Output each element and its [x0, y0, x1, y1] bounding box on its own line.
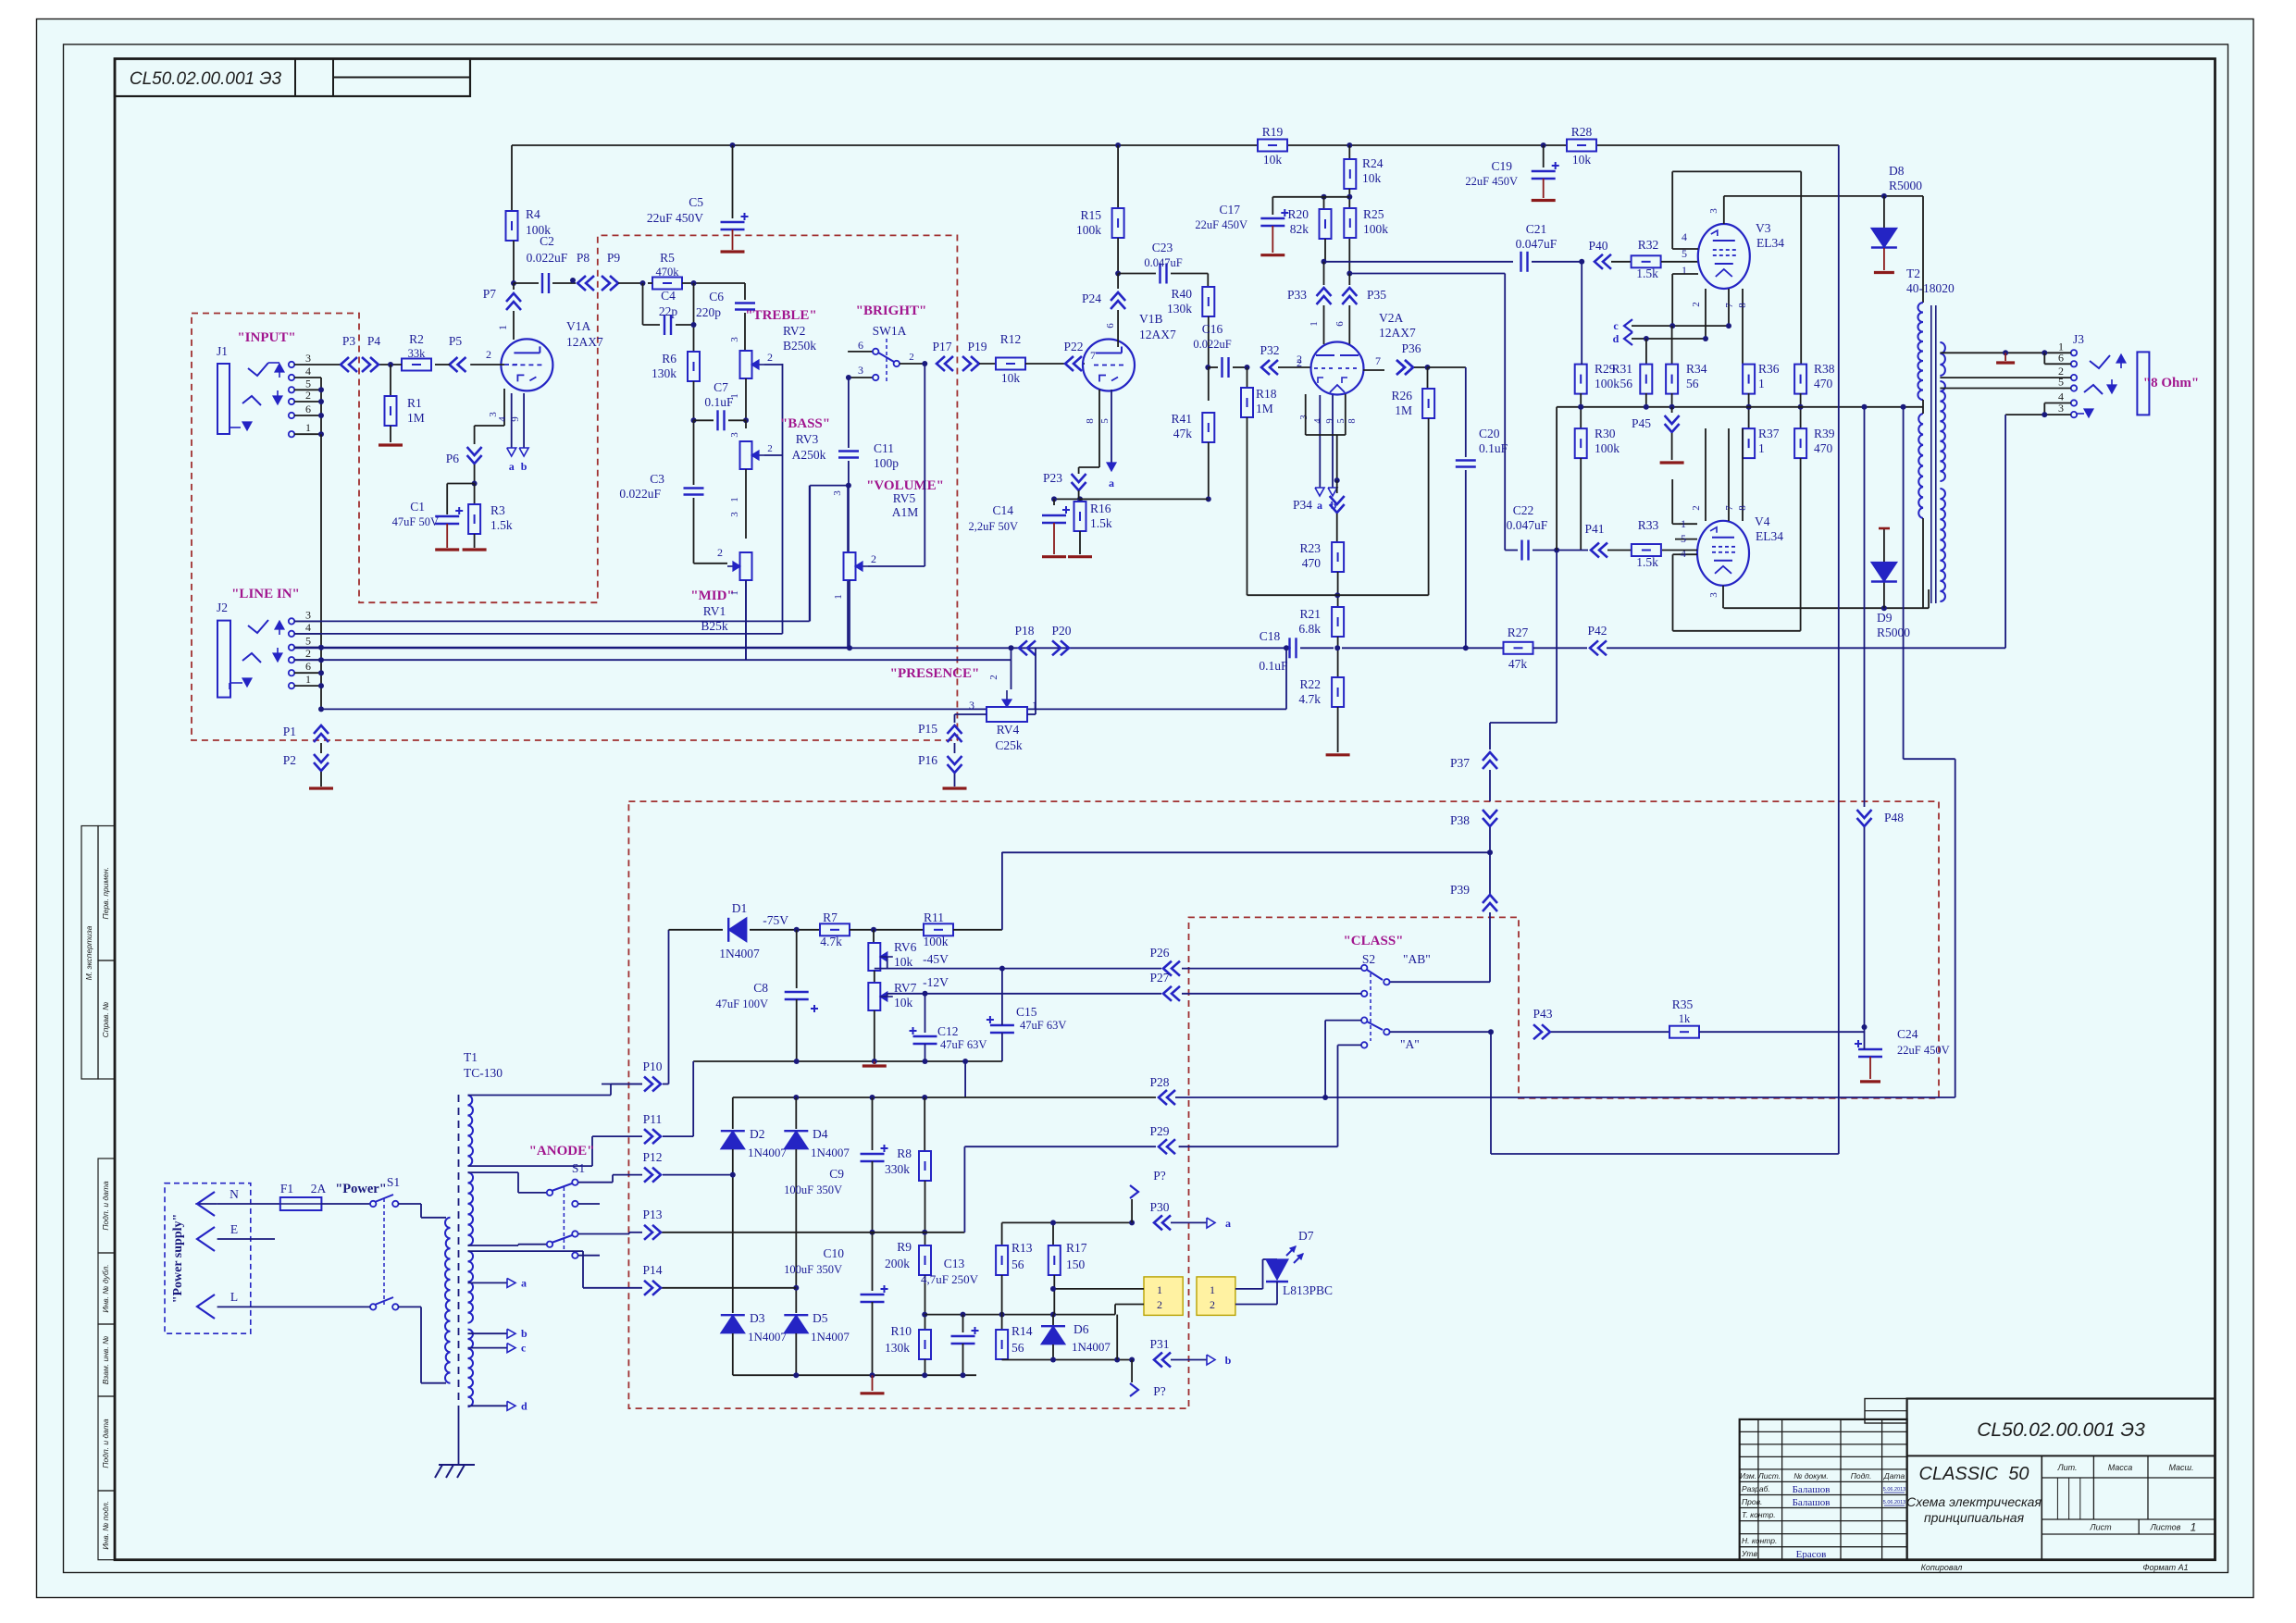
- svg-text:1: 1: [2191, 1521, 2197, 1534]
- svg-text:P22: P22: [1063, 340, 1083, 353]
- svg-text:"BRIGHT": "BRIGHT": [856, 304, 927, 318]
- svg-text:R8: R8: [897, 1146, 912, 1160]
- svg-text:R40: R40: [1171, 287, 1192, 301]
- svg-text:1k: 1k: [1679, 1012, 1691, 1025]
- svg-text:R32: R32: [1638, 238, 1659, 252]
- svg-text:1M: 1M: [1256, 402, 1273, 415]
- svg-text:0.1uF: 0.1uF: [1479, 441, 1508, 455]
- svg-text:T2: T2: [1906, 266, 1920, 280]
- svg-text:Лит.: Лит.: [2056, 1463, 2077, 1472]
- svg-text:2: 2: [305, 647, 311, 660]
- svg-text:D2: D2: [750, 1127, 765, 1141]
- svg-text:Перв. примен.: Перв. примен.: [101, 867, 110, 920]
- svg-text:C13: C13: [944, 1257, 965, 1270]
- svg-text:R14: R14: [1011, 1324, 1033, 1338]
- svg-text:c: c: [1613, 319, 1619, 332]
- svg-text:d: d: [1613, 332, 1620, 345]
- svg-text:R6: R6: [662, 352, 676, 365]
- svg-text:3: 3: [305, 352, 311, 365]
- svg-text:B25k: B25k: [701, 619, 728, 633]
- svg-text:R39: R39: [1814, 427, 1835, 440]
- svg-text:3: 3: [729, 432, 740, 438]
- svg-text:P33: P33: [1287, 288, 1307, 302]
- svg-text:100k: 100k: [924, 935, 949, 948]
- svg-text:"INPUT": "INPUT": [237, 330, 295, 345]
- svg-text:P7: P7: [483, 287, 497, 301]
- svg-text:150: 150: [1066, 1258, 1086, 1271]
- svg-text:R13: R13: [1011, 1241, 1033, 1255]
- svg-text:Изм.: Изм.: [1740, 1471, 1756, 1481]
- svg-text:R23: R23: [1299, 541, 1321, 555]
- svg-text:5.06.2013: 5.06.2013: [1883, 1487, 1905, 1493]
- svg-text:Инв. № дубл.: Инв. № дубл.: [101, 1264, 110, 1312]
- svg-text:47k: 47k: [1173, 427, 1193, 440]
- svg-text:220p: 220p: [696, 305, 721, 319]
- svg-text:a: a: [1109, 477, 1114, 489]
- svg-text:3: 3: [729, 337, 740, 342]
- svg-text:М. экспертиза: М. экспертиза: [84, 925, 93, 980]
- svg-text:P32: P32: [1260, 343, 1279, 357]
- svg-text:C8: C8: [753, 981, 768, 995]
- svg-text:4: 4: [305, 365, 311, 378]
- svg-text:P35: P35: [1367, 288, 1386, 302]
- svg-text:CL50.02.00.001 Э3: CL50.02.00.001 Э3: [130, 69, 282, 89]
- svg-text:R5000: R5000: [1889, 179, 1922, 192]
- svg-text:6: 6: [1105, 323, 1116, 328]
- svg-text:C24: C24: [1897, 1027, 1918, 1041]
- svg-text:8: 8: [1737, 505, 1748, 511]
- svg-text:a: a: [1225, 1217, 1231, 1230]
- svg-text:R2: R2: [409, 332, 424, 346]
- svg-text:22uF 450V: 22uF 450V: [1465, 175, 1518, 188]
- svg-text:1N4007: 1N4007: [811, 1330, 850, 1344]
- svg-text:V1B: V1B: [1139, 312, 1163, 326]
- svg-text:Лист.: Лист.: [1757, 1471, 1781, 1481]
- svg-text:100k: 100k: [1363, 222, 1388, 236]
- svg-text:P20: P20: [1051, 624, 1071, 638]
- svg-text:9: 9: [510, 416, 521, 422]
- svg-text:J3: J3: [2073, 332, 2084, 346]
- svg-text:D5: D5: [813, 1311, 828, 1325]
- svg-text:"Power": "Power": [335, 1182, 387, 1196]
- svg-text:C23: C23: [1152, 241, 1173, 254]
- svg-text:100k: 100k: [1595, 441, 1620, 455]
- svg-text:47uF 63V: 47uF 63V: [1020, 1019, 1066, 1032]
- svg-text:Инв. № подл.: Инв. № подл.: [101, 1501, 110, 1550]
- svg-text:1: 1: [1032, 699, 1037, 712]
- svg-text:c: c: [521, 1342, 527, 1355]
- svg-text:100uF 350V: 100uF 350V: [784, 1183, 842, 1196]
- svg-text:"AB": "AB": [1403, 952, 1431, 966]
- svg-text:1: 1: [305, 421, 311, 434]
- svg-text:P48: P48: [1884, 811, 1904, 824]
- svg-text:R30: R30: [1595, 427, 1616, 440]
- svg-text:C1: C1: [410, 500, 425, 514]
- svg-text:"A": "A": [1400, 1037, 1420, 1051]
- svg-text:10k: 10k: [1263, 153, 1283, 167]
- svg-text:C20: C20: [1479, 427, 1500, 440]
- svg-text:1: 1: [833, 594, 844, 600]
- svg-text:T1: T1: [464, 1050, 478, 1064]
- svg-text:b: b: [521, 460, 527, 473]
- svg-text:6: 6: [305, 660, 311, 673]
- svg-text:принципиальная: принципиальная: [1924, 1510, 2025, 1525]
- svg-text:P?: P?: [1153, 1384, 1166, 1398]
- svg-text:R16: R16: [1090, 502, 1111, 515]
- svg-text:0.047uF: 0.047uF: [1516, 237, 1558, 251]
- svg-text:1: 1: [729, 497, 740, 502]
- svg-text:4: 4: [1313, 418, 1323, 424]
- svg-text:3: 3: [488, 412, 499, 417]
- svg-text:1: 1: [1681, 517, 1686, 530]
- svg-text:4.7k: 4.7k: [1298, 692, 1321, 706]
- svg-text:C15: C15: [1016, 1005, 1037, 1019]
- svg-text:2: 2: [717, 546, 723, 559]
- svg-text:P29: P29: [1149, 1124, 1169, 1138]
- svg-text:12AX7: 12AX7: [1379, 326, 1416, 340]
- svg-text:P24: P24: [1082, 291, 1101, 305]
- svg-text:C3: C3: [650, 472, 664, 486]
- svg-text:P42: P42: [1587, 624, 1607, 638]
- svg-text:1: 1: [1758, 441, 1765, 455]
- svg-text:P18: P18: [1014, 624, 1034, 638]
- svg-text:P15: P15: [918, 722, 937, 736]
- svg-text:1: 1: [496, 325, 509, 330]
- svg-text:CLASSIC 50: CLASSIC 50: [1919, 1464, 2029, 1484]
- svg-text:2: 2: [767, 351, 773, 364]
- svg-text:0.1uF: 0.1uF: [704, 395, 734, 409]
- svg-text:C11: C11: [874, 441, 894, 455]
- svg-text:47k: 47k: [1508, 657, 1528, 671]
- svg-text:R25: R25: [1363, 207, 1384, 221]
- svg-text:56: 56: [1011, 1341, 1024, 1355]
- svg-text:D4: D4: [813, 1127, 828, 1141]
- svg-text:P8: P8: [577, 251, 590, 265]
- svg-text:C16: C16: [1202, 322, 1223, 336]
- svg-text:a: a: [521, 1276, 527, 1289]
- svg-text:10k: 10k: [1001, 371, 1021, 385]
- svg-text:V4: V4: [1755, 514, 1770, 528]
- svg-text:1N4007: 1N4007: [719, 947, 760, 960]
- svg-text:C6: C6: [709, 290, 724, 304]
- svg-text:R12: R12: [1000, 332, 1022, 346]
- svg-text:8: 8: [1347, 418, 1358, 423]
- svg-text:1: 1: [1210, 1283, 1215, 1296]
- svg-text:Дата: Дата: [1883, 1471, 1905, 1481]
- svg-text:R31: R31: [1611, 362, 1632, 376]
- svg-text:R3: R3: [490, 503, 505, 517]
- svg-text:RV5: RV5: [893, 491, 916, 505]
- svg-text:470k: 470k: [656, 266, 680, 279]
- svg-text:4,7uF 250V: 4,7uF 250V: [921, 1272, 979, 1286]
- svg-text:R38: R38: [1814, 362, 1835, 376]
- svg-text:1: 1: [305, 673, 311, 686]
- svg-text:C5: C5: [689, 195, 703, 209]
- svg-text:P11: P11: [643, 1112, 663, 1126]
- svg-text:R37: R37: [1758, 427, 1780, 440]
- svg-text:P14: P14: [642, 1263, 662, 1277]
- svg-text:2: 2: [1210, 1298, 1215, 1311]
- svg-text:P23: P23: [1043, 471, 1062, 485]
- svg-text:56: 56: [1686, 377, 1699, 390]
- svg-text:0.1uF: 0.1uF: [1259, 659, 1288, 673]
- svg-text:P31: P31: [1149, 1337, 1169, 1351]
- svg-text:Н. контр.: Н. контр.: [1742, 1536, 1777, 1545]
- svg-text:40-18020: 40-18020: [1906, 281, 1955, 295]
- svg-text:2: 2: [1157, 1298, 1162, 1311]
- svg-text:V2A: V2A: [1379, 311, 1403, 325]
- svg-text:"PRESENCE": "PRESENCE": [890, 666, 980, 681]
- svg-text:Подп. и дата: Подп. и дата: [101, 1181, 110, 1230]
- svg-text:P5: P5: [449, 334, 463, 348]
- svg-text:P37: P37: [1450, 756, 1470, 770]
- svg-text:Подп. и дата: Подп. и дата: [101, 1419, 110, 1468]
- svg-text:Балашов: Балашов: [1793, 1484, 1831, 1495]
- svg-text:P17: P17: [932, 340, 951, 353]
- svg-text:A1M: A1M: [892, 505, 919, 519]
- svg-text:RV7: RV7: [894, 981, 917, 995]
- svg-text:100k: 100k: [1595, 377, 1620, 390]
- svg-text:4: 4: [1682, 230, 1687, 243]
- svg-text:"CLASS": "CLASS": [1343, 934, 1403, 948]
- svg-text:P13: P13: [642, 1208, 662, 1221]
- svg-text:12AX7: 12AX7: [566, 335, 603, 349]
- svg-text:Лист: Лист: [2089, 1523, 2112, 1532]
- svg-text:330k: 330k: [885, 1162, 910, 1176]
- svg-text:56: 56: [1011, 1258, 1024, 1271]
- svg-text:P1: P1: [283, 725, 296, 738]
- svg-text:R5: R5: [660, 251, 675, 265]
- svg-text:0.022uF: 0.022uF: [1193, 338, 1231, 351]
- svg-text:A250k: A250k: [792, 448, 826, 462]
- svg-text:R27: R27: [1508, 626, 1529, 639]
- svg-text:2: 2: [909, 352, 914, 363]
- svg-text:P9: P9: [607, 251, 621, 265]
- svg-text:C14: C14: [992, 503, 1013, 517]
- svg-text:C25k: C25k: [995, 738, 1023, 752]
- svg-text:C7: C7: [714, 380, 728, 394]
- svg-text:P41: P41: [1584, 522, 1604, 536]
- svg-text:C9: C9: [829, 1167, 844, 1181]
- svg-text:C17: C17: [1219, 203, 1240, 217]
- svg-text:4: 4: [497, 416, 508, 422]
- svg-text:3: 3: [832, 490, 843, 496]
- svg-text:130k: 130k: [885, 1341, 910, 1355]
- svg-text:2: 2: [1691, 302, 1702, 307]
- svg-text:L: L: [230, 1290, 238, 1304]
- svg-text:56: 56: [1620, 377, 1633, 390]
- svg-text:1: 1: [1157, 1283, 1162, 1296]
- svg-text:7: 7: [1375, 354, 1381, 367]
- svg-text:5: 5: [1681, 532, 1686, 545]
- svg-text:100k: 100k: [1076, 223, 1101, 237]
- svg-text:8: 8: [1085, 418, 1096, 424]
- svg-text:100p: 100p: [874, 456, 899, 470]
- svg-text:P6: P6: [446, 452, 460, 465]
- svg-text:1.5k: 1.5k: [490, 518, 513, 532]
- svg-text:D7: D7: [1298, 1229, 1314, 1243]
- svg-text:0.047uF: 0.047uF: [1507, 518, 1548, 532]
- svg-text:C2: C2: [540, 234, 554, 248]
- svg-text:P19: P19: [967, 340, 987, 353]
- svg-text:EL34: EL34: [1756, 236, 1784, 250]
- svg-text:3: 3: [1708, 592, 1719, 598]
- svg-text:"TREBLE": "TREBLE": [745, 308, 817, 323]
- svg-text:3: 3: [858, 364, 863, 377]
- svg-text:P27: P27: [1149, 971, 1169, 985]
- svg-text:R15: R15: [1080, 208, 1101, 222]
- svg-text:RV3: RV3: [796, 432, 819, 446]
- svg-text:C21: C21: [1526, 222, 1547, 236]
- svg-text:R11: R11: [924, 911, 944, 924]
- svg-text:P12: P12: [642, 1150, 662, 1164]
- svg-text:L813PBC: L813PBC: [1283, 1283, 1333, 1297]
- svg-text:0.022uF: 0.022uF: [527, 251, 568, 265]
- svg-text:9: 9: [1325, 418, 1335, 423]
- svg-text:R7: R7: [823, 911, 838, 924]
- svg-text:C22: C22: [1513, 503, 1534, 517]
- svg-text:Утв.: Утв.: [1741, 1549, 1759, 1558]
- svg-text:6.8k: 6.8k: [1298, 622, 1321, 636]
- svg-text:3: 3: [1708, 208, 1719, 214]
- svg-text:R26: R26: [1391, 389, 1412, 403]
- svg-text:R34: R34: [1686, 362, 1707, 376]
- svg-text:S1: S1: [572, 1161, 585, 1175]
- svg-text:0.047uF: 0.047uF: [1144, 256, 1182, 269]
- svg-text:Масса: Масса: [2108, 1463, 2133, 1472]
- svg-text:P10: P10: [642, 1059, 662, 1073]
- svg-text:7: 7: [1724, 303, 1735, 308]
- svg-text:2: 2: [871, 552, 876, 565]
- svg-text:1M: 1M: [1395, 403, 1412, 417]
- svg-text:10k: 10k: [894, 955, 913, 969]
- svg-text:82k: 82k: [1290, 222, 1309, 236]
- svg-text:Взам. инв. №: Взам. инв. №: [101, 1336, 110, 1385]
- svg-text:1: 1: [1758, 377, 1765, 390]
- svg-text:RV4: RV4: [997, 723, 1020, 737]
- svg-text:-75V: -75V: [763, 913, 788, 927]
- svg-text:P16: P16: [918, 753, 937, 767]
- svg-text:"8 Ohm": "8 Ohm": [2143, 376, 2199, 390]
- svg-text:RV1: RV1: [703, 604, 726, 618]
- svg-text:C4: C4: [661, 289, 676, 303]
- svg-text:10k: 10k: [894, 996, 913, 1010]
- svg-text:D9: D9: [1877, 611, 1893, 625]
- svg-text:4.7k: 4.7k: [820, 935, 842, 948]
- svg-text:33k: 33k: [408, 347, 427, 360]
- svg-text:P28: P28: [1149, 1075, 1169, 1089]
- svg-text:D1: D1: [732, 901, 748, 915]
- svg-text:10k: 10k: [1362, 171, 1382, 185]
- svg-text:J2: J2: [217, 601, 228, 614]
- svg-text:V3: V3: [1756, 221, 1771, 235]
- svg-text:"MID": "MID": [690, 588, 734, 603]
- svg-text:0.022uF: 0.022uF: [619, 487, 661, 501]
- svg-text:d: d: [521, 1399, 527, 1412]
- svg-text:P38: P38: [1450, 813, 1470, 827]
- svg-text:470: 470: [1814, 441, 1833, 455]
- svg-text:R18: R18: [1256, 387, 1277, 401]
- svg-text:P3: P3: [342, 334, 356, 348]
- svg-text:2: 2: [1691, 505, 1702, 511]
- svg-text:5: 5: [1099, 418, 1111, 424]
- svg-text:Балашов: Балашов: [1793, 1497, 1831, 1508]
- svg-text:SW1A: SW1A: [873, 324, 907, 338]
- svg-text:P39: P39: [1450, 883, 1470, 897]
- svg-text:1: 1: [729, 590, 740, 596]
- svg-text:C12: C12: [937, 1024, 959, 1038]
- svg-text:EL34: EL34: [1756, 529, 1783, 543]
- svg-text:7: 7: [1724, 505, 1735, 511]
- svg-text:B250k: B250k: [783, 339, 816, 353]
- svg-text:P30: P30: [1149, 1200, 1169, 1214]
- svg-text:R17: R17: [1066, 1241, 1087, 1255]
- svg-text:R10: R10: [890, 1324, 912, 1338]
- svg-text:S2: S2: [1362, 952, 1375, 966]
- svg-text:22uF 450V: 22uF 450V: [647, 211, 703, 225]
- svg-text:2: 2: [486, 348, 491, 361]
- svg-text:"LINE IN": "LINE IN": [231, 587, 300, 601]
- svg-text:Ерасов: Ерасов: [1796, 1549, 1827, 1560]
- svg-text:130k: 130k: [1167, 302, 1192, 316]
- svg-text:R1: R1: [407, 396, 422, 410]
- svg-text:C19: C19: [1491, 159, 1512, 173]
- svg-text:R5000: R5000: [1877, 626, 1910, 639]
- svg-text:J1: J1: [217, 344, 228, 358]
- svg-text:4: 4: [1681, 547, 1686, 560]
- svg-text:№ докум.: № докум.: [1793, 1471, 1828, 1481]
- svg-text:1N4007: 1N4007: [811, 1146, 850, 1159]
- svg-text:6: 6: [858, 339, 863, 352]
- svg-text:Формат А1: Формат А1: [2142, 1563, 2188, 1572]
- svg-text:"BASS": "BASS": [780, 416, 830, 431]
- svg-text:b: b: [1225, 1354, 1232, 1367]
- svg-text:S1: S1: [387, 1175, 400, 1189]
- svg-text:2: 2: [1297, 356, 1302, 369]
- svg-text:R9: R9: [897, 1240, 912, 1254]
- svg-text:P?: P?: [1153, 1169, 1166, 1183]
- svg-text:8: 8: [1737, 303, 1748, 308]
- svg-text:P26: P26: [1149, 946, 1169, 960]
- svg-text:10k: 10k: [1572, 153, 1592, 167]
- svg-text:1N4007: 1N4007: [1072, 1340, 1111, 1354]
- svg-text:3: 3: [305, 608, 311, 621]
- svg-text:R41: R41: [1171, 412, 1192, 426]
- svg-text:Листов: Листов: [2150, 1523, 2181, 1532]
- svg-text:a: a: [509, 460, 515, 473]
- svg-text:470: 470: [1302, 556, 1322, 570]
- svg-text:47uF 63V: 47uF 63V: [940, 1038, 987, 1051]
- svg-text:"ANODE": "ANODE": [529, 1144, 595, 1158]
- svg-text:-45V: -45V: [923, 952, 949, 966]
- svg-text:47uF 100V: 47uF 100V: [715, 997, 768, 1010]
- svg-text:1.5k: 1.5k: [1636, 555, 1658, 569]
- svg-text:CL50.02.00.001 Э3: CL50.02.00.001 Э3: [1977, 1419, 2145, 1441]
- svg-text:Разраб.: Разраб.: [1742, 1484, 1770, 1493]
- svg-text:2: 2: [988, 675, 999, 680]
- svg-text:22uF 450V: 22uF 450V: [1195, 218, 1247, 231]
- svg-text:1.5k: 1.5k: [1090, 516, 1112, 530]
- svg-text:R36: R36: [1758, 362, 1780, 376]
- svg-text:TC-130: TC-130: [464, 1066, 503, 1080]
- svg-text:Подп.: Подп.: [1851, 1471, 1872, 1481]
- svg-text:RV2: RV2: [783, 324, 805, 338]
- svg-text:Копировал: Копировал: [1921, 1563, 1963, 1572]
- svg-text:470: 470: [1814, 377, 1833, 390]
- svg-text:6: 6: [1334, 321, 1346, 327]
- svg-text:Т. контр.: Т. контр.: [1742, 1510, 1776, 1519]
- svg-text:R4: R4: [526, 207, 540, 221]
